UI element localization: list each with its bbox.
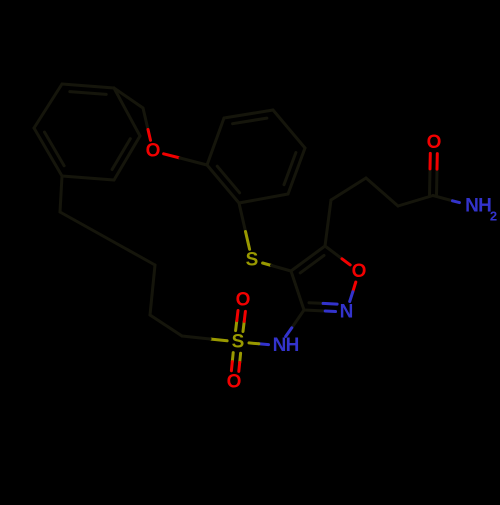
svg-text:2: 2 [490,209,497,224]
svg-text:O: O [427,132,442,153]
svg-text:O: O [227,372,242,393]
svg-text:N: N [465,196,479,217]
svg-text:O: O [236,290,251,311]
svg-text:N: N [273,335,287,356]
svg-text:S: S [232,332,245,353]
svg-text:O: O [146,141,161,162]
svg-text:S: S [246,250,259,271]
svg-text:H: H [286,335,300,356]
svg-text:O: O [352,261,367,282]
svg-text:N: N [340,302,354,323]
